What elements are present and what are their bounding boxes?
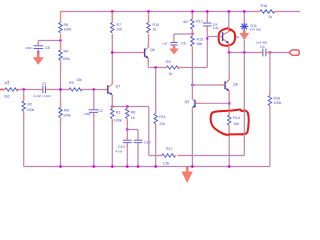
- capacitor C2: [84, 90, 103, 167]
- svg-text:R4: R4: [64, 50, 69, 54]
- svg-text:2k2: 2k2: [4, 95, 10, 99]
- wire Q4 emitter down: [228, 43, 230, 52]
- wire Q4 collector to rail: [228, 12, 230, 32]
- junction dot: [228, 165, 231, 168]
- svg-text:R8: R8: [131, 111, 136, 115]
- resistor R2: [22, 90, 34, 167]
- svg-text:R18: R18: [274, 97, 281, 101]
- svg-text:R12: R12: [196, 19, 203, 23]
- resistor R5: [69, 78, 82, 91]
- wire Q7 collector column: [111, 12, 113, 85]
- junction dot: [228, 51, 231, 54]
- junction dot: [191, 32, 194, 35]
- junction dot: [191, 84, 194, 87]
- junction dot: [154, 165, 157, 168]
- svg-text:C6: C6: [181, 42, 186, 46]
- svg-text:100k: 100k: [64, 28, 72, 32]
- resistor R16: [260, 4, 275, 19]
- svg-text:R14: R14: [233, 116, 240, 120]
- transistor Q9: [185, 99, 198, 108]
- capacitor C6: [162, 34, 192, 46]
- junction dot: [59, 88, 62, 91]
- svg-text:1k: 1k: [153, 28, 157, 32]
- svg-text:C1: C1: [42, 82, 47, 86]
- wire top supply rail: [61, 11, 301, 13]
- resistor R9: [166, 60, 179, 76]
- svg-text:4k7: 4k7: [183, 20, 189, 24]
- svg-text:C19: C19: [144, 141, 151, 145]
- resistor R13: [191, 36, 203, 99]
- wire middle column down to R17: [149, 107, 245, 156]
- wire Q9 emitter down: [191, 108, 193, 167]
- capacitor C1: [34, 82, 52, 98]
- junction dot: [227, 10, 230, 13]
- svg-text:R2: R2: [28, 103, 33, 107]
- resistor R18: [268, 53, 281, 167]
- wire Q9 base wire: [197, 102, 229, 104]
- resistor R8: [126, 108, 136, 129]
- junction dot: [111, 105, 114, 108]
- resistor R1: [4, 82, 19, 99]
- svg-text:R17: R17: [166, 147, 173, 151]
- resistor R14: [228, 104, 240, 167]
- wire Q6 base branch: [112, 52, 144, 54]
- node C8 branch wire: [38, 41, 60, 53]
- resistor R7: [111, 23, 123, 34]
- capacitor C9: [203, 23, 219, 30]
- svg-text:1k: 1k: [169, 72, 173, 76]
- junction dot: [126, 105, 129, 108]
- junction dot: [206, 10, 209, 13]
- D11 arrow: [240, 30, 249, 39]
- wire column x60 upper: [60, 12, 62, 41]
- wire output feedback column: [243, 53, 245, 156]
- ground arrow: [33, 53, 43, 65]
- wire C9 column: [206, 12, 208, 68]
- svg-text:100p: 100p: [84, 112, 91, 116]
- svg-text:10k: 10k: [233, 122, 239, 126]
- svg-text:C8: C8: [45, 46, 50, 50]
- svg-text:R13: R13: [197, 38, 204, 42]
- capacitor C19: [127, 130, 150, 167]
- resistor R6: [59, 23, 72, 34]
- wire D11 column: [243, 12, 245, 53]
- transistor Q7: [108, 84, 120, 95]
- wire Q4 base wire: [207, 36, 222, 38]
- svg-text:R16: R16: [261, 4, 268, 8]
- junction dot: [59, 39, 62, 42]
- svg-text:100k: 100k: [62, 57, 70, 61]
- svg-text:C4: C4: [260, 45, 265, 49]
- svg-text:100k: 100k: [27, 108, 35, 112]
- svg-text:1k: 1k: [131, 116, 135, 120]
- svg-text:R10: R10: [153, 23, 160, 27]
- svg-text:100n: 100n: [26, 46, 33, 50]
- wire Q8 base wire: [192, 84, 224, 86]
- resistor R8b: [59, 90, 71, 167]
- svg-text:1k: 1k: [269, 15, 273, 19]
- wire Q8 emitter down: [228, 91, 230, 104]
- svg-text:22k: 22k: [159, 122, 165, 126]
- svg-text:100k: 100k: [63, 114, 71, 118]
- wire output line: [229, 52, 289, 54]
- svg-text:Q6: Q6: [150, 48, 155, 52]
- wire input line: [18, 89, 69, 91]
- svg-text:2V4 0B1: 2V4 0B1: [250, 28, 262, 32]
- svg-text:R1: R1: [5, 82, 10, 86]
- junction dots bottom rail: [59, 165, 62, 168]
- annotation circle around Q4: [219, 28, 236, 46]
- svg-text:100k: 100k: [274, 101, 282, 105]
- capacitor C8: [26, 46, 50, 50]
- svg-text:47uF: 47uF: [116, 149, 123, 153]
- junction dot: [228, 102, 231, 105]
- svg-text:56k: 56k: [197, 42, 203, 46]
- wire to Q7 base: [82, 89, 107, 91]
- ground arrow bottom: [182, 167, 192, 183]
- transistor Q6: [145, 47, 155, 58]
- resistor R10: [147, 12, 159, 48]
- junction node A: [22, 88, 25, 91]
- svg-text:R8: R8: [64, 109, 69, 113]
- svg-text:15k: 15k: [76, 78, 82, 82]
- svg-text:R11: R11: [159, 115, 165, 119]
- junction dot: [126, 128, 129, 131]
- svg-text:100k: 100k: [114, 119, 122, 123]
- wire Q7 emitter node line: [112, 95, 149, 107]
- svg-text:R9: R9: [166, 60, 171, 64]
- svg-text:22k: 22k: [117, 28, 123, 32]
- junction dot: [191, 10, 194, 13]
- junction dot: [243, 10, 246, 13]
- component leads: [4, 12, 279, 156]
- ground arrow: [170, 45, 178, 54]
- svg-text:Q8: Q8: [233, 83, 238, 87]
- svg-text:Q7: Q7: [116, 85, 121, 89]
- svg-text:1uF: 1uF: [162, 42, 167, 46]
- junction dot: [111, 51, 114, 54]
- wire Q8 collector up: [228, 53, 230, 81]
- svg-text:2x4 0B1: 2x4 0B1: [256, 41, 268, 45]
- resistor R17: [162, 147, 176, 165]
- transistor Q4: [223, 32, 239, 44]
- wire Q6 emitter / R9 line: [148, 58, 207, 67]
- input terminal: [0, 81, 9, 90]
- svg-text:Q9: Q9: [185, 100, 190, 104]
- diode D11 starburst: [240, 23, 261, 32]
- svg-text:1.5k: 1.5k: [163, 161, 170, 165]
- junction dot: [111, 10, 114, 13]
- junction dot: [92, 88, 95, 91]
- junction dot: [206, 37, 208, 39]
- svg-text:R6: R6: [64, 23, 69, 27]
- svg-text:2.2uF | 10uF: 2.2uF | 10uF: [34, 94, 52, 98]
- junction dot: [37, 51, 39, 53]
- svg-text:R7: R7: [117, 23, 122, 27]
- svg-text:C2: C2: [98, 109, 103, 113]
- svg-text:6.8p: 6.8p: [213, 26, 219, 30]
- junction dot: [147, 10, 150, 13]
- junction dot: [269, 51, 272, 54]
- wire ground rail bottom: [24, 166, 270, 168]
- junction dot: [243, 51, 246, 54]
- capacitor C10: [116, 130, 132, 167]
- resistor R4: [59, 41, 70, 90]
- svg-text:R3: R3: [116, 111, 121, 115]
- transistor Q8: [225, 80, 238, 91]
- svg-text:R5: R5: [69, 81, 74, 85]
- junction dot: [154, 66, 157, 69]
- resistor R12: [183, 12, 203, 37]
- output jack: [289, 50, 299, 55]
- resistor R11: [154, 68, 166, 167]
- resistor R3: [111, 108, 122, 166]
- annotation circle around R14: [211, 110, 249, 135]
- capacitor C4: [256, 41, 268, 57]
